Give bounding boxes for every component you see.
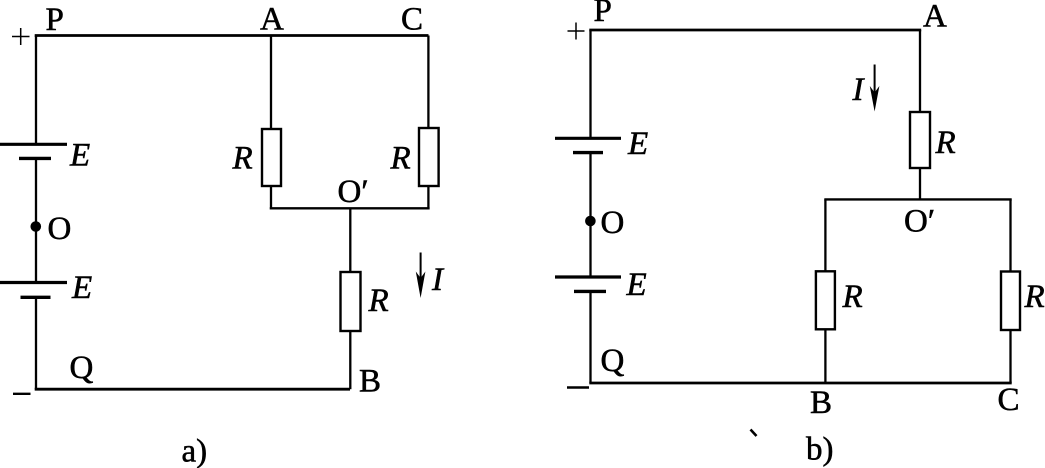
svg-text:O: O — [601, 205, 625, 241]
svg-text:O: O — [48, 211, 72, 247]
svg-text:b): b) — [806, 432, 834, 468]
battery cell E2 short plate (a) — [21, 296, 51, 299]
wire A down to resistor R1 (a) — [270, 36, 272, 130]
battery cell E2 short plate (b) — [574, 290, 606, 293]
wire battery E1 to battery E2 through node O (b) — [589, 153, 591, 277]
wire O' horizontal bar (a) — [270, 207, 430, 209]
wire O' bar down-right to resistor R3 (b) — [1009, 199, 1011, 271]
svg-text:Q: Q — [601, 343, 625, 379]
svg-text:B: B — [359, 364, 381, 400]
wire A down to resistor R1 (b) — [919, 30, 921, 112]
wire R1 to O' bar (a) — [270, 186, 272, 210]
svg-text:A: A — [260, 2, 284, 38]
plus terminal (a) — [12, 28, 30, 45]
resistor R3 body (b) — [1001, 272, 1020, 331]
svg-text:a): a) — [182, 434, 208, 468]
battery cell E1 long plate (a) — [0, 143, 67, 146]
wire R2 to O' bar (a) — [427, 186, 429, 210]
resistor R1 body (a) — [262, 129, 281, 186]
battery cell E2 long plate (a) — [0, 281, 67, 284]
svg-text:I: I — [852, 72, 866, 108]
svg-text:E: E — [69, 138, 90, 174]
current arrow I head (b) — [870, 86, 880, 112]
battery cell E1 short plate (a) — [19, 157, 51, 160]
minus terminal (a) — [13, 393, 31, 395]
wire R1 down to O' bar (b) — [919, 168, 921, 201]
wire battery E2 down to Q corner (a) — [35, 297, 37, 389]
svg-text:I: I — [431, 262, 445, 298]
wire P down to battery E1 (a) — [35, 36, 37, 145]
wire C down to resistor R2 (a) — [427, 36, 429, 129]
wire battery E1 to battery E2 through node O (a) — [35, 158, 37, 282]
svg-text:R: R — [1024, 279, 1045, 315]
resistor R2 body (b) — [816, 271, 835, 329]
wire top P-A-C (a) — [35, 34, 429, 37]
svg-text:C: C — [401, 2, 423, 38]
wire R2 down to B (b) — [824, 329, 826, 383]
svg-text:E: E — [626, 267, 647, 303]
svg-text:O′: O′ — [904, 204, 935, 240]
current arrow I head (a) — [416, 272, 426, 299]
svg-text:C: C — [998, 382, 1020, 418]
resistor R3 body (a) — [341, 272, 361, 331]
wire bottom Q-B (a) — [35, 388, 350, 391]
wire top P-A (b) — [589, 29, 921, 32]
svg-text:E: E — [627, 126, 648, 162]
battery cell E1 short plate (b) — [573, 151, 603, 154]
plus terminal (b) — [568, 23, 585, 40]
svg-text:P: P — [46, 2, 64, 38]
svg-text:R: R — [842, 279, 863, 315]
resistor R1 body (b) — [910, 112, 930, 168]
wire battery E2 down to Q corner (b) — [589, 291, 591, 383]
wire O' bar down-left to resistor R2 (b) — [824, 199, 826, 271]
node O junction dot (a) — [31, 221, 42, 232]
wire bottom Q-B-C (b) — [589, 382, 1011, 385]
svg-text:A: A — [923, 0, 947, 35]
svg-text:Q: Q — [70, 350, 94, 386]
wire P down to battery E1 (b) — [589, 30, 591, 138]
node O junction dot (b) — [585, 216, 596, 227]
current arrow I shaft (a) — [420, 253, 422, 289]
wire R3 down to B corner (a) — [349, 331, 351, 389]
minus terminal (b) — [567, 386, 589, 388]
svg-text:R: R — [390, 141, 411, 177]
stray accent mark — [751, 430, 757, 437]
wire O' horizontal bar (b) — [824, 198, 1011, 200]
wire O' down to resistor R3 (a) — [349, 208, 351, 272]
svg-text:E: E — [71, 270, 92, 306]
svg-text:O′: O′ — [338, 174, 369, 210]
svg-text:R: R — [935, 125, 956, 161]
svg-text:P: P — [594, 0, 612, 29]
resistor R2 body (a) — [419, 128, 439, 186]
battery cell E1 long plate (b) — [555, 137, 621, 140]
svg-text:R: R — [232, 141, 253, 177]
battery cell E2 long plate (b) — [555, 275, 621, 278]
wire R3 down to C (b) — [1009, 330, 1011, 383]
svg-text:R: R — [368, 283, 389, 319]
svg-text:B: B — [810, 385, 832, 421]
current arrow I shaft (b) — [874, 65, 876, 104]
